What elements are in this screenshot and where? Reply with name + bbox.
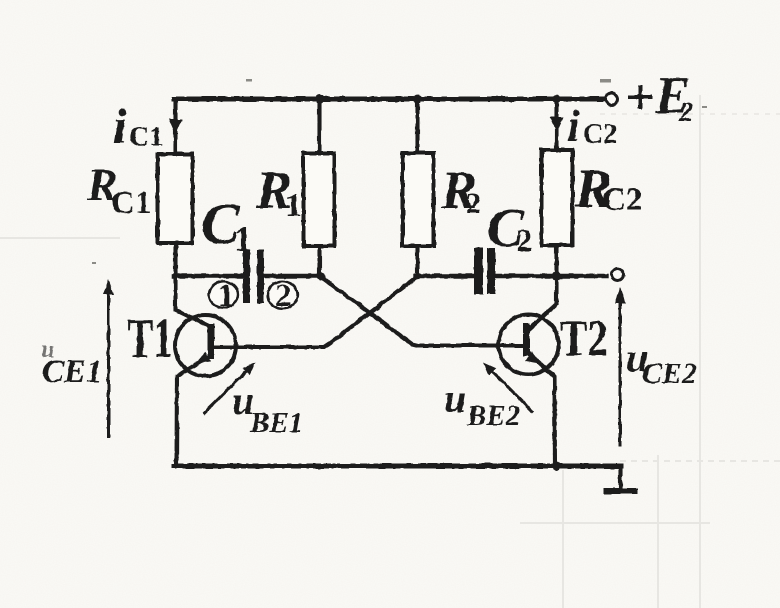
svg-text:1: 1 [218, 278, 235, 314]
svg-text:1: 1 [234, 219, 252, 259]
svg-text:u: u [444, 376, 466, 421]
svg-text:C1: C1 [111, 185, 151, 221]
svg-text:1: 1 [285, 187, 302, 224]
svg-text:2: 2 [275, 278, 292, 314]
svg-text:C2: C2 [602, 182, 642, 218]
svg-text:2: 2 [678, 97, 693, 128]
svg-text:BE1: BE1 [249, 407, 303, 439]
svg-text:T2: T2 [560, 311, 608, 368]
svg-text:BE2: BE2 [466, 400, 520, 432]
svg-text:2: 2 [466, 187, 481, 220]
svg-text:CE2: CE2 [642, 357, 697, 390]
svg-text:2: 2 [516, 223, 533, 259]
svg-text:C2: C2 [583, 119, 617, 150]
svg-text:C1: C1 [129, 122, 163, 153]
svg-text:i: i [113, 98, 127, 154]
svg-text:i: i [567, 100, 580, 151]
svg-text:T1: T1 [127, 308, 173, 370]
svg-text:CE1: CE1 [42, 354, 103, 390]
